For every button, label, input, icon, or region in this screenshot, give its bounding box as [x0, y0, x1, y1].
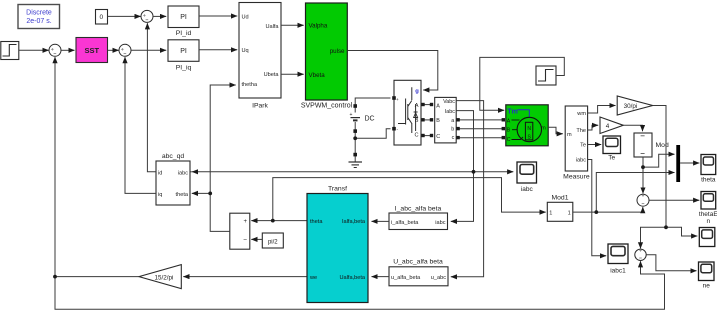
block Discrete sample-time annotation: [18, 5, 60, 29]
node Mod1 output branch: [594, 210, 598, 214]
svg-text:u_alfa_beta: u_alfa_beta: [391, 275, 421, 281]
svg-text:PI: PI: [180, 48, 187, 55]
wire Mod1 output to thetaE sum and mux: [573, 207, 643, 212]
svg-text:i_alfa_beta: i_alfa_beta: [391, 220, 419, 226]
svg-text:m: m: [567, 132, 572, 138]
wire Transf theta to sum plus input and Mod1 (branch): [251, 220, 307, 222]
svg-text:PI_iq: PI_iq: [176, 65, 192, 72]
wire IPark Ualfa to SVPWM Valpha: [281, 24, 304, 26]
step source (speed reference): [1, 42, 19, 60]
wire gain4 to Mod block: [623, 125, 642, 131]
block three-phase V-I measurement: [435, 97, 457, 142]
svg-text:15/2/pi: 15/2/pi: [155, 274, 174, 281]
wire abc_qd id feedback to sum3: [147, 23, 156, 172]
node Mod output branch: [641, 165, 645, 169]
svg-text:Ud: Ud: [242, 14, 249, 20]
wire inverter A to measurement A: [421, 103, 433, 106]
svg-text:SVPWM_control: SVPWM_control: [301, 103, 353, 110]
wire inverter B to measurement B: [421, 118, 433, 121]
svg-text:PI_id: PI_id: [176, 30, 192, 37]
block I_abc_alfa beta: [389, 206, 448, 230]
svg-text:+: +: [350, 112, 353, 118]
svg-text:iabc: iabc: [521, 186, 534, 193]
svg-text:iabc: iabc: [178, 171, 188, 177]
block abc_qd current transform: [156, 153, 190, 205]
svg-text:A: A: [436, 103, 440, 109]
step source load torque: [536, 66, 556, 85]
scope iabc: [517, 162, 537, 193]
wire sum2 to PI_iq: [131, 49, 166, 51]
ground: [349, 153, 363, 168]
node theta branch: [271, 219, 275, 223]
block IGBT inverter bridge: [392, 80, 421, 145]
mux for theta comparison: [676, 145, 680, 182]
block pi/2 constant: [262, 233, 283, 248]
svg-text:theta: theta: [701, 176, 716, 183]
svg-text:Mod: Mod: [656, 142, 669, 149]
node rpm branch: [664, 225, 668, 229]
block PI_iq controller: [168, 40, 199, 72]
svg-text:id: id: [158, 171, 162, 177]
sum junction speed difference: [635, 249, 646, 260]
svg-text:Ialfa,beta: Ialfa,beta: [342, 219, 366, 225]
wire sum output to IPark thetha with branch to abc_qd theta: [210, 85, 236, 231]
wire Transf we to gain 15/2/pi: [183, 276, 307, 278]
node theta to abc_qd: [208, 192, 212, 196]
wire step to sum1: [19, 49, 49, 51]
block Transf sliding-mode observer: [307, 185, 368, 302]
wire step torque to PMSM Tm: [480, 57, 565, 110]
wire Mod output to mux and thetaE sum: [643, 154, 675, 167]
sum block theta plus pi/2: [230, 213, 250, 249]
svg-text:A: A: [507, 118, 511, 124]
wire PMSM m to Measure: [548, 127, 563, 134]
svg-text:pi/2: pi/2: [268, 239, 278, 245]
svg-text:we: we: [309, 275, 317, 281]
svg-text:U_abc_alfa beta: U_abc_alfa beta: [393, 259, 443, 266]
block Mod math function: [634, 133, 669, 157]
block Measure demux: [563, 106, 590, 180]
svg-text:1: 1: [549, 211, 552, 217]
svg-text:Transf: Transf: [328, 185, 347, 192]
wire speed sum to scope ne: [646, 255, 696, 271]
svg-text:Vbeta: Vbeta: [309, 72, 326, 79]
svg-text:b: b: [451, 126, 454, 132]
svg-text:+: +: [396, 97, 399, 102]
scope thetaE n: [699, 192, 717, 225]
sum junction id error: [141, 10, 153, 22]
wire PI_iq to IPark Uq: [199, 49, 237, 51]
svg-text:C: C: [414, 133, 418, 139]
svg-text:I_abc_alfa beta: I_abc_alfa beta: [395, 206, 442, 213]
block SVPWM_control: [301, 3, 353, 110]
wire measurement c to motor C: [456, 136, 505, 139]
block PI_id controller: [168, 6, 199, 37]
svg-text:pulse: pulse: [330, 48, 345, 55]
wire measurement a to motor A: [456, 118, 505, 121]
svg-text:thetha: thetha: [242, 82, 258, 88]
node DC minus junction: [353, 136, 357, 140]
wire measurement b to motor B: [456, 127, 505, 130]
svg-text:ne: ne: [703, 283, 711, 290]
scope iabc1: [608, 244, 628, 275]
wire pi/2 to sum minus input: [251, 238, 262, 240]
wire Iabc feedback across to abc_qd and iabc scope: [190, 171, 192, 173]
wire gain 30/pi output down to speed comparison: [653, 106, 698, 237]
svg-text:iabc: iabc: [576, 158, 586, 164]
svg-text:+: +: [243, 219, 247, 225]
wire Measure iabc down to scope iabc1: [588, 160, 607, 256]
wire wm to gain 30/pi: [588, 106, 616, 114]
wire The to gain 4: [588, 125, 599, 130]
svg-text:Measure: Measure: [563, 173, 590, 180]
block PMSM motor: [506, 105, 548, 146]
svg-text:−: −: [243, 237, 247, 244]
sum junction thetaE: [637, 194, 649, 206]
wire gain output to sum1 feedback and bottom bus: [55, 57, 139, 277]
node we feedback branch: [53, 275, 57, 279]
wire PI_id to IPark Ud: [199, 15, 237, 17]
svg-text:iabc1: iabc1: [610, 268, 626, 275]
svg-text:Uq: Uq: [242, 48, 249, 54]
svg-text:thetaE: thetaE: [699, 211, 717, 218]
svg-text:C: C: [507, 137, 511, 143]
wire inverter C to measurement C: [421, 134, 433, 137]
svg-text:Vabc: Vabc: [443, 99, 455, 105]
DC voltage source: [350, 98, 391, 154]
wire mux to scope theta: [680, 162, 699, 164]
block U_abc_alfa beta: [389, 259, 448, 286]
svg-text:B: B: [507, 128, 511, 134]
svg-text:n: n: [706, 218, 710, 225]
wire constant0 to sum3: [108, 15, 141, 17]
svg-text:Ualfa,beta: Ualfa,beta: [340, 275, 366, 281]
svg-text:1: 1: [568, 211, 571, 217]
wire I_abc out to Transf Ialfa,beta: [372, 220, 390, 222]
gain 15/2/pi estimated speed scaling: [139, 265, 181, 289]
wire sum3 to PI_id: [153, 15, 166, 17]
svg-text:N: N: [527, 126, 531, 132]
svg-text:4: 4: [606, 123, 610, 130]
svg-text:theta: theta: [176, 192, 189, 198]
svg-text:IPark: IPark: [252, 103, 268, 110]
svg-text:Tm: Tm: [507, 109, 518, 116]
sum junction iq error: [119, 44, 131, 56]
svg-text:m: m: [541, 125, 546, 131]
gain 4: [600, 117, 623, 134]
svg-text:Iabc: Iabc: [445, 109, 455, 115]
svg-text:iq: iq: [158, 192, 162, 198]
svg-text:Valpha: Valpha: [309, 22, 328, 29]
svg-text:Mod1: Mod1: [551, 194, 568, 201]
svg-text:0: 0: [99, 14, 103, 21]
svg-text:c: c: [452, 135, 455, 141]
constant 0 block: [96, 10, 108, 25]
wire DC minus to inverter minus: [355, 129, 390, 139]
svg-text:30/pi: 30/pi: [624, 103, 638, 110]
svg-text:g: g: [415, 89, 419, 95]
wire SVPWM pulse to inverter gate g: [347, 51, 438, 91]
svg-text:Ualfa: Ualfa: [265, 24, 279, 30]
gain 30/pi: [617, 96, 653, 115]
svg-text:C: C: [436, 134, 440, 140]
svg-text:DC: DC: [365, 116, 375, 123]
svg-text:The: The: [576, 128, 586, 134]
svg-text:u_abc: u_abc: [431, 275, 446, 281]
wire IPark Ubeta to SVPWM Vbeta: [281, 73, 304, 75]
sum junction speed error: [49, 44, 61, 56]
scope n actual speed: [699, 228, 715, 247]
svg-text:2e-07 s.: 2e-07 s.: [26, 18, 51, 25]
scope theta: [701, 155, 716, 184]
svg-text:Discrete: Discrete: [26, 10, 52, 17]
svg-text:SST: SST: [85, 46, 100, 55]
block SST speed controller: [76, 38, 108, 63]
freewheeling diode inside inverter: [415, 104, 417, 131]
svg-text:wm: wm: [576, 111, 586, 117]
scope ne: [699, 262, 715, 290]
wire abc_qd iq feedback to sum2: [125, 57, 156, 193]
block Mod1 wrap: [547, 194, 573, 221]
svg-text:a: a: [451, 118, 454, 124]
svg-text:B: B: [436, 118, 440, 124]
svg-text:Te: Te: [580, 143, 586, 149]
node Iabc junction: [472, 170, 476, 174]
wire U_abc out to Transf Ualfa,beta: [372, 276, 390, 278]
wire thetaE sum to scope thetaE: [649, 199, 699, 201]
wire Vabc measurement down to U_abc block: [451, 101, 484, 277]
svg-text:Ubeta: Ubeta: [264, 72, 280, 78]
svg-text:Te: Te: [608, 154, 615, 161]
block IPark inverse Park transform: [239, 3, 281, 110]
svg-text:PI: PI: [180, 14, 187, 21]
wire Te to scope Te: [588, 144, 602, 146]
scope Te: [603, 136, 621, 161]
wire Iabc measurement down to I_abc block: [451, 111, 474, 222]
wire SST to sum2: [108, 49, 119, 51]
svg-text:theta: theta: [310, 219, 323, 225]
wire sum1 to SST: [61, 49, 75, 51]
svg-text:iabc: iabc: [435, 220, 445, 226]
svg-text:abc_qd: abc_qd: [162, 153, 185, 160]
IGBT symbol inside inverter: [398, 87, 412, 133]
